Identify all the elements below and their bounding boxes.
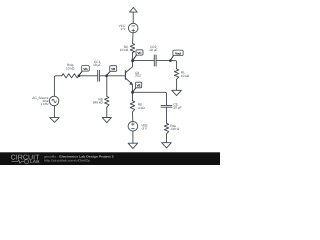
node Vin box bbox=[82, 66, 90, 72]
capacitor CC1 bbox=[98, 70, 100, 81]
wire Rsig to CC1 bbox=[79, 75, 98, 77]
leaders and node dots bbox=[78, 55, 173, 93]
svg-text:VE: VE bbox=[137, 84, 141, 88]
svg-text:1 kHz: 1 kHz bbox=[40, 102, 49, 106]
svg-text:340 kΩ: 340 kΩ bbox=[93, 101, 104, 105]
wire VEE to ground bbox=[132, 131, 134, 143]
wire CC1 to Q1 base bbox=[100, 75, 126, 77]
node VE box bbox=[135, 82, 141, 88]
node VB leader bbox=[107, 71, 111, 75]
node VE leader bbox=[133, 88, 136, 92]
svg-text:130 Ω: 130 Ω bbox=[170, 127, 179, 131]
ground Rce bbox=[162, 143, 172, 148]
wire RB to ground bbox=[106, 107, 108, 117]
svg-text:VB: VB bbox=[111, 67, 115, 71]
footer bar bbox=[0, 152, 220, 165]
svg-text:Vout: Vout bbox=[175, 52, 181, 56]
wire base node to RB bbox=[106, 76, 108, 97]
svg-text:10 µF: 10 µF bbox=[149, 48, 157, 52]
wire VCC to RC bbox=[132, 33, 134, 44]
transistor Q1 body bbox=[124, 71, 126, 80]
wire RC to collector node bbox=[132, 53, 134, 61]
svg-text:4 kΩ: 4 kΩ bbox=[138, 106, 145, 110]
node flag boxes bbox=[82, 50, 183, 88]
wire RL to ground bbox=[176, 79, 178, 90]
ground AC source bbox=[50, 118, 59, 123]
component labels bbox=[32, 24, 190, 131]
resistor Rce bbox=[164, 123, 168, 134]
svg-text:VC: VC bbox=[137, 51, 141, 55]
svg-text:10 kΩ: 10 kΩ bbox=[181, 74, 190, 78]
svg-text:10 µF: 10 µF bbox=[93, 63, 101, 67]
resistor RC bbox=[130, 44, 134, 53]
svg-text:10 kΩ: 10 kΩ bbox=[120, 48, 129, 52]
wire RE to VEE bbox=[132, 112, 134, 121]
ground RB bbox=[102, 118, 111, 123]
svg-text:10 kΩ: 10 kΩ bbox=[66, 66, 75, 70]
svg-text:LAB: LAB bbox=[30, 159, 40, 164]
node VB box bbox=[110, 66, 117, 72]
power flag VCC bbox=[130, 7, 138, 23]
resistor RE bbox=[130, 101, 134, 112]
wire CE to Rce bbox=[166, 107, 168, 123]
wire collector node to CC2 bbox=[133, 60, 155, 62]
node Vin leader bbox=[79, 71, 82, 75]
node Vout box bbox=[173, 50, 183, 56]
voltage source VCC (9 V) bbox=[128, 23, 138, 32]
resistor RL bbox=[174, 69, 178, 79]
wire AC source to Rsig bbox=[54, 76, 61, 96]
svg-text:2N2222: 2N2222 bbox=[134, 74, 141, 78]
wire Rce to ground bbox=[166, 134, 168, 143]
wire emitter node to RE bbox=[132, 92, 134, 100]
wire emitter to RE and CE branch bbox=[133, 92, 167, 105]
svg-text:10 µF: 10 µF bbox=[173, 105, 181, 109]
wire AC source to ground bbox=[53, 106, 55, 118]
resistor RB bbox=[105, 96, 109, 107]
svg-text:-9 V: -9 V bbox=[141, 126, 148, 130]
resistor Rsig bbox=[62, 74, 79, 78]
node VC box bbox=[136, 50, 143, 55]
capacitor CC2 bbox=[154, 55, 156, 66]
svg-text:http://circuitlab.com/c43m62p: http://circuitlab.com/c43m62p bbox=[44, 159, 90, 163]
transistor Q1 emitter arrow bbox=[130, 82, 133, 85]
node VC leader bbox=[133, 55, 137, 60]
node Vout leader bbox=[170, 56, 173, 61]
voltage source VEE (-9 V) bbox=[128, 121, 138, 131]
AC source V1 circle bbox=[49, 96, 59, 106]
footer top highlight bbox=[0, 151, 220, 154]
AC source sine bbox=[52, 99, 56, 102]
ground VEE bbox=[128, 143, 138, 148]
footer logo CIRCUIT LAB bbox=[11, 154, 41, 164]
ground RL bbox=[172, 90, 182, 95]
capacitor CE bbox=[161, 105, 172, 107]
wire CC2 to RL bbox=[156, 61, 176, 69]
svg-text:Vin: Vin bbox=[83, 67, 88, 71]
